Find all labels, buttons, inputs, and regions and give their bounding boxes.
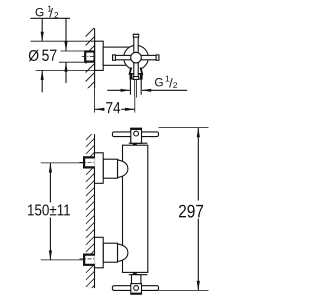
handle spokes (cross, top view) (113, 34, 159, 79)
valve body (top view) (103, 47, 128, 65)
top hub screw circle (134, 131, 139, 136)
label G1/2 (right, outlet) (155, 76, 177, 88)
valve body (bottom view) (123, 145, 148, 272)
dim G1/2 (nipple) legs and arrows (64, 18, 67, 83)
top handle bar (edge view) (112, 132, 158, 137)
bottom handle hub (131, 284, 142, 295)
dim 150±11 (28, 163, 84, 260)
nipple extension lines (61, 50, 86, 52)
label G1/2 (top left) (36, 6, 59, 18)
Ø57 extension lines (31, 40, 95, 42)
upper union nut bullet (118, 160, 128, 178)
leader of right G1/2 with arrow to pipe (107, 89, 187, 92)
escutcheon flange (top view, Ø57) (95, 41, 104, 70)
label Ø57 (29, 50, 57, 62)
bottom outlet neck (132, 275, 141, 286)
dim Ø57 leader legs and arrows (41, 18, 44, 92)
dim 74 (95, 98, 135, 114)
top hub redrawn over bar (131, 128, 142, 143)
underline of G1/2 label (30, 17, 70, 19)
handle hub circle (131, 52, 142, 63)
upper wall nipple (80, 157, 95, 167)
bottom spoke (134, 58, 138, 80)
wall hatching (bottom view) (86, 131, 95, 294)
dim 297 (159, 128, 209, 291)
bottom handle bar (edge view) (112, 286, 158, 291)
top handle hub (131, 128, 142, 143)
bottom hub screw circle (134, 286, 139, 291)
outlet shank pipe (top view) (130, 79, 141, 98)
top spoke (134, 34, 138, 57)
lower union nut bullet (118, 244, 128, 262)
cross handle backplate circle (top view) (124, 45, 149, 70)
bottom cap line and black stem mark (129, 273, 148, 275)
wall (top view) hatched strip (86, 28, 95, 91)
outlet nut below handle (130, 74, 142, 79)
upper union body (103, 159, 117, 178)
upper union flange (95, 153, 104, 184)
top cap line and black stem mark (129, 143, 148, 145)
wall face extension line down to 74-dim (94, 88, 96, 113)
lower wall nipple (80, 255, 95, 265)
left spoke (113, 55, 136, 59)
lower union flange (95, 237, 104, 267)
handle bonnet below circle (130, 68, 143, 74)
lower union body (103, 243, 117, 262)
G1/2 threaded nipple in wall (top view) (82, 52, 97, 62)
wall (bottom view) face line (94, 134, 96, 288)
right spoke (136, 55, 159, 59)
